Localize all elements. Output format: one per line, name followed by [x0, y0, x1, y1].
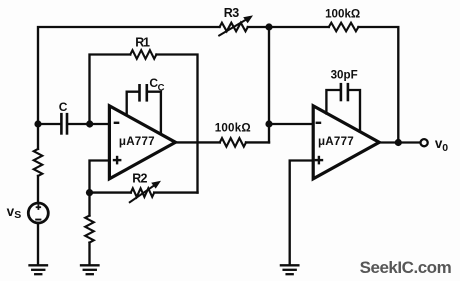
svg-text:S: S [14, 209, 21, 221]
wire source to C [38, 123, 60, 125]
capacitor 30pF plates [341, 84, 348, 100]
wire R2 left [90, 191, 131, 193]
junction node output [395, 139, 402, 146]
svg-text:100kΩ: 100kΩ [325, 8, 360, 21]
resistor right vertical [85, 216, 94, 243]
capacitor Cc plates [140, 85, 147, 100]
wire resistor to source Vs [37, 176, 39, 203]
resistor R1 [130, 50, 156, 59]
junction node R2 left [86, 189, 93, 196]
svg-text:R2: R2 [132, 172, 147, 186]
resistor R2 [131, 188, 154, 197]
svg-text:R1: R1 [135, 36, 150, 50]
resistor 100k top [329, 23, 359, 32]
ground left [30, 265, 48, 274]
source Vs plus minus marks [35, 205, 41, 221]
wire resistor to ground [88, 243, 90, 265]
resistor R3 [220, 23, 248, 32]
ground middle-left [81, 265, 99, 274]
wire opamp2 inverting input [269, 123, 313, 125]
wire R1 right leg [156, 55, 197, 193]
svg-text:μA777: μA777 [318, 135, 354, 148]
svg-text:30pF: 30pF [331, 69, 358, 82]
opamp U2 minus sign [316, 122, 322, 124]
resistor left vertical [34, 149, 43, 176]
capacitor C plates [61, 114, 67, 133]
R3 arrow [219, 15, 253, 35]
source Vs circle [28, 203, 48, 223]
svg-text:μA777: μA777 [119, 135, 155, 148]
op-amp U1 triangle [109, 106, 175, 179]
resistor 100k middle [220, 138, 246, 147]
wire C to opamp1 inverting input [68, 123, 109, 125]
junction node C input [34, 120, 41, 127]
wire 100k middle to riser [246, 141, 269, 143]
terminal Vo circle [421, 139, 428, 146]
wire node R3 down to opamp2 inverting input [268, 27, 270, 142]
wire node to resistor right vertical [88, 193, 90, 216]
opamp U1 plus sign [113, 156, 122, 165]
wire R3 to node [248, 26, 329, 28]
junction node opamp2 inverting [265, 120, 272, 127]
wire top feedback rail [38, 27, 220, 124]
wire opamp2 output [379, 141, 419, 143]
wire Vs to ground [37, 223, 39, 265]
svg-text:C: C [59, 100, 68, 114]
capacitor 30pF bracket [326, 90, 360, 132]
svg-text:0: 0 [442, 142, 448, 154]
wire R1 left leg [90, 55, 131, 125]
svg-text:100kΩ: 100kΩ [215, 121, 251, 134]
junction node opamp1 inverting [86, 120, 93, 127]
svg-text:SeekIC.com: SeekIC.com [360, 258, 452, 277]
op-amp U2 triangle [313, 106, 379, 179]
wire opamp2 noninverting input to ground [290, 161, 314, 265]
wire source branch down [37, 124, 39, 149]
wire R2 right [154, 191, 197, 193]
capacitor Cc bracket [127, 92, 161, 134]
ground right [281, 265, 299, 274]
opamp U2 plus sign [315, 156, 324, 165]
opamp U1 minus sign [114, 122, 120, 124]
wire 100k to output node [358, 27, 398, 143]
wire opamp1 noninverting input [90, 161, 110, 193]
junction node R3 right [265, 23, 272, 30]
svg-text:C: C [158, 82, 165, 93]
R2 arrow [130, 181, 161, 202]
svg-text:R3: R3 [224, 6, 239, 20]
wire opamp1 output [176, 141, 220, 143]
